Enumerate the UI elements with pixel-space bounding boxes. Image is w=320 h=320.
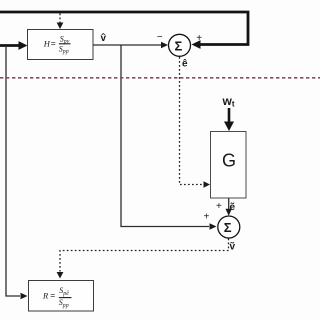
wire: dotted v-tilde from S2 down, left and into block R top (57, 239, 229, 279)
block R = S_pe / S_pp (29, 281, 94, 312)
block G (211, 132, 247, 199)
wire: p branch down left side to block R input (6, 46, 28, 299)
wire: junction branch down to summer S2 left input (121, 45, 217, 230)
svg-text:Σ: Σ (175, 39, 183, 54)
svg-text:H: H (43, 39, 51, 49)
wire: thick input arrow p into block H (0, 41, 28, 50)
svg-text:=: = (50, 290, 55, 300)
wire: dotted arrow from top line into block H top (57, 14, 64, 30)
svg-text:+: + (196, 33, 202, 44)
svg-text:=: = (51, 38, 56, 48)
svg-text:v̂: v̂ (101, 33, 107, 44)
svg-text:ṽ: ṽ (230, 242, 236, 253)
wire: H output to summer S1 (93, 42, 168, 48)
wire: thick feedback line top, right side down into summer S1 (0, 12, 248, 49)
wire: thick arrow w_t into block G top (224, 108, 234, 131)
svg-text:−: − (157, 32, 163, 43)
svg-text:+: + (204, 212, 210, 223)
block H = S_pv / S_pp (28, 30, 94, 60)
svg-text:Σ: Σ (224, 220, 232, 235)
svg-text:G: G (222, 151, 236, 171)
wire: G output down into summer S2 top (226, 198, 232, 216)
svg-text:R: R (42, 291, 49, 301)
wire: dotted e-hat from S1 down and right into block G (180, 57, 211, 188)
svg-text:+: + (216, 201, 222, 212)
boundary: pink dashed horizontal line (0, 77, 320, 79)
svg-text:ẽ: ẽ (230, 202, 236, 213)
summer S1 (169, 34, 191, 56)
svg-text:wt: wt (222, 94, 235, 109)
summer S2 (218, 216, 240, 238)
svg-text:ê: ê (182, 59, 188, 70)
